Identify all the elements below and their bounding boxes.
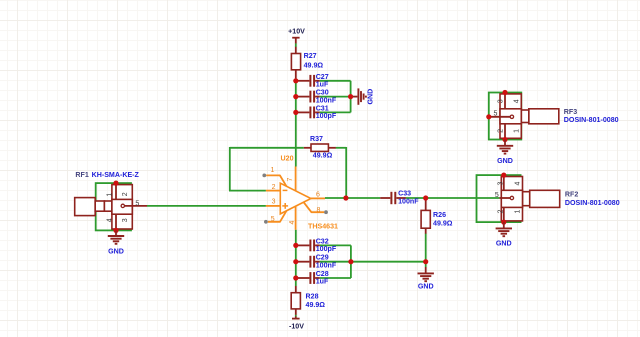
svg-text:THS4631: THS4631 — [308, 223, 338, 231]
svg-text:2: 2 — [272, 184, 276, 191]
svg-text:1: 1 — [107, 193, 114, 197]
svg-text:GND: GND — [496, 240, 512, 248]
svg-text:3: 3 — [497, 99, 504, 103]
svg-text:4: 4 — [514, 182, 521, 186]
svg-text:GND: GND — [108, 248, 124, 256]
svg-text:5: 5 — [271, 216, 275, 223]
svg-text:100nF: 100nF — [316, 261, 337, 269]
svg-text:5: 5 — [494, 111, 498, 118]
svg-text:8: 8 — [316, 207, 320, 214]
svg-text:2: 2 — [497, 209, 504, 213]
svg-text:2: 2 — [497, 129, 504, 133]
svg-text:DOSIN-801-0080: DOSIN-801-0080 — [565, 199, 620, 207]
svg-text:49.9Ω: 49.9Ω — [433, 219, 453, 227]
svg-text:49.9Ω: 49.9Ω — [313, 152, 333, 160]
svg-text:1uF: 1uF — [316, 278, 329, 286]
svg-text:49.9Ω: 49.9Ω — [306, 301, 326, 309]
svg-text:-10V: -10V — [289, 322, 304, 330]
svg-text:GND: GND — [497, 157, 513, 165]
svg-text:RF3: RF3 — [564, 108, 577, 116]
svg-text:GND: GND — [367, 89, 375, 105]
svg-text:DOSIN-801-0080: DOSIN-801-0080 — [564, 116, 619, 124]
svg-text:1: 1 — [514, 129, 521, 133]
svg-text:3: 3 — [497, 182, 504, 186]
svg-text:R26: R26 — [433, 211, 446, 219]
svg-text:3: 3 — [272, 199, 276, 206]
svg-text:RF2: RF2 — [565, 190, 578, 198]
svg-text:100pF: 100pF — [316, 112, 337, 120]
svg-text:RF1: RF1 — [75, 171, 88, 179]
svg-text:1: 1 — [271, 167, 275, 174]
svg-text:2: 2 — [122, 192, 129, 196]
svg-text:3: 3 — [122, 218, 129, 222]
svg-text:100nF: 100nF — [316, 96, 337, 104]
svg-text:1uF: 1uF — [316, 81, 329, 89]
svg-text:5: 5 — [135, 200, 139, 207]
svg-text:6: 6 — [316, 192, 320, 199]
svg-text:R28: R28 — [306, 292, 319, 300]
svg-text:GND: GND — [418, 282, 434, 290]
svg-text:R27: R27 — [304, 52, 317, 60]
svg-text:C33: C33 — [398, 190, 411, 198]
svg-text:4: 4 — [107, 218, 114, 222]
svg-text:4: 4 — [289, 220, 296, 224]
svg-text:100pF: 100pF — [316, 245, 337, 253]
svg-text:100nF: 100nF — [398, 198, 419, 206]
svg-text:U20: U20 — [281, 155, 294, 163]
svg-text:7: 7 — [287, 177, 294, 181]
svg-text:4: 4 — [514, 99, 521, 103]
svg-text:1: 1 — [514, 209, 521, 213]
svg-text:5: 5 — [495, 192, 499, 199]
svg-text:49.9Ω: 49.9Ω — [304, 62, 324, 70]
svg-text:R37: R37 — [310, 135, 323, 143]
svg-text:+10V: +10V — [288, 28, 305, 36]
svg-text:KH-SMA-KE-Z: KH-SMA-KE-Z — [92, 171, 140, 179]
